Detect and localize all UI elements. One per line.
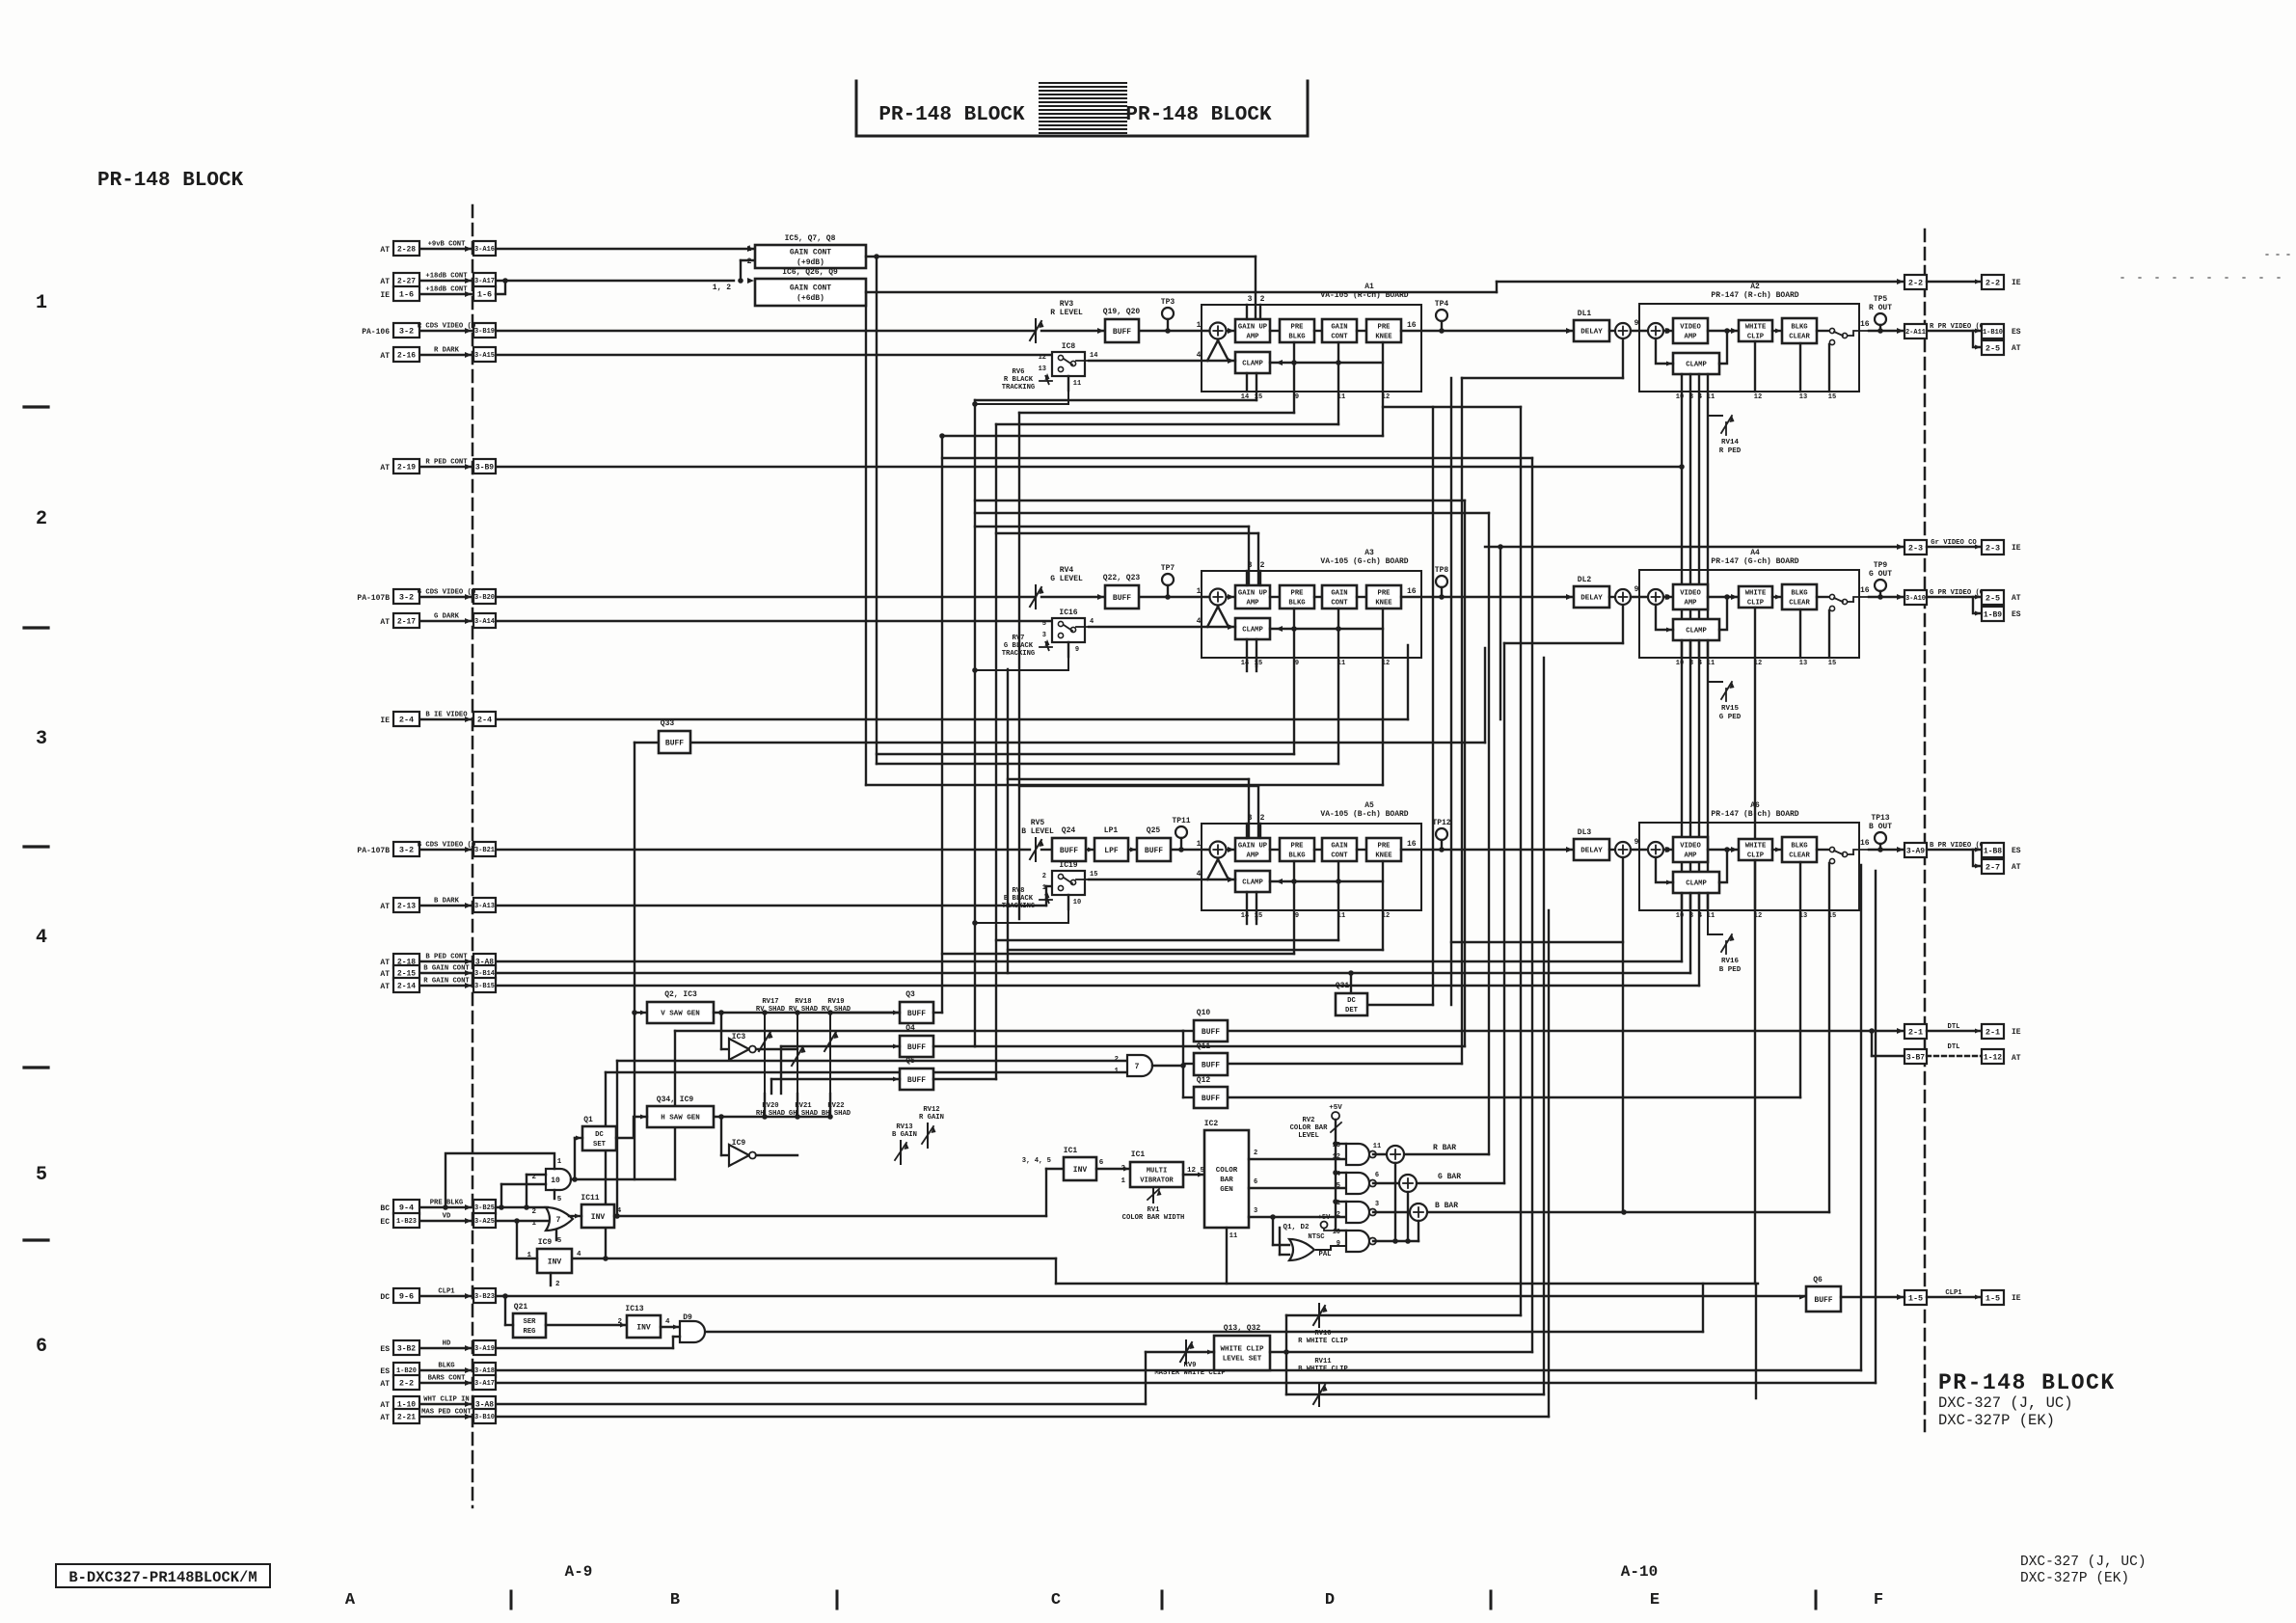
- svg-text:CLIP: CLIP: [1747, 599, 1765, 607]
- svg-text:LPF: LPF: [1104, 847, 1119, 855]
- svg-text:VIDEO: VIDEO: [1680, 590, 1701, 598]
- R-out summing node 1: [1615, 323, 1631, 338]
- svg-text:CLAMP: CLAMP: [1242, 627, 1263, 635]
- svg-text:R BLACK: R BLACK: [1004, 376, 1034, 384]
- B-strip pot RV8 black tracking: [1040, 899, 1052, 901]
- svg-text:BUFF: BUFF: [907, 1043, 926, 1052]
- R-strip block CLAMP: [1235, 352, 1270, 373]
- svg-text:DTL: DTL: [1948, 1043, 1960, 1051]
- svg-text:PA-107B: PA-107B: [357, 847, 390, 855]
- block Q10 BUFF: [1194, 1020, 1228, 1041]
- svg-text:ES: ES: [380, 1367, 390, 1376]
- svg-text:2-4: 2-4: [399, 716, 414, 725]
- svg-text:9: 9: [1634, 838, 1639, 847]
- R-out wire sum2 to clamp: [1656, 338, 1673, 364]
- block Q5 BUFF: [900, 1068, 933, 1090]
- block IC5 gain cont +9dB: [747, 246, 754, 252]
- R-strip wire amp-preblkg: [1270, 330, 1280, 332]
- svg-text:GAIN UP: GAIN UP: [1238, 590, 1268, 598]
- B-out wire blkg-switch: [1817, 849, 1828, 851]
- svg-text:2-19: 2-19: [397, 463, 416, 472]
- svg-text:CLIP: CLIP: [1747, 333, 1765, 340]
- svg-text:DELAY: DELAY: [1580, 848, 1603, 855]
- svg-text:COLOR: COLOR: [1216, 1167, 1238, 1175]
- svg-text:2: 2: [617, 1318, 622, 1326]
- B-strip wire strip out: [1401, 849, 1574, 851]
- svg-text:VIDEO: VIDEO: [1680, 843, 1701, 851]
- wire 1-6 hook: [496, 281, 505, 294]
- svg-text:KNEE: KNEE: [1375, 852, 1392, 859]
- G-strip block CLAMP: [1235, 618, 1270, 639]
- wire B gain-up feed 815: [1019, 785, 1258, 787]
- svg-text:GAIN: GAIN: [1331, 324, 1347, 332]
- svg-text:AMP: AMP: [1247, 599, 1260, 607]
- wire or7 out: [569, 1215, 581, 1217]
- svg-text:DXC-327P (EK): DXC-327P (EK): [1938, 1412, 2055, 1429]
- wire or in a: [1273, 1244, 1289, 1246]
- svg-text:14: 14: [1090, 352, 1097, 360]
- sum B bar: [1410, 1204, 1427, 1221]
- svg-text:14: 14: [1241, 912, 1249, 920]
- svg-text:AMP: AMP: [1685, 333, 1698, 340]
- G-out connector 1-B9: [1982, 607, 2004, 621]
- svg-text:BLKG: BLKG: [438, 1363, 454, 1370]
- svg-text:Q33: Q33: [661, 719, 675, 728]
- svg-text:IC2: IC2: [1204, 1120, 1219, 1128]
- gate10 in2: [501, 1183, 546, 1185]
- svg-text:13: 13: [1799, 660, 1807, 667]
- svg-text:R CDS VIDEO (Q: R CDS VIDEO (Q: [418, 323, 476, 331]
- pot RV1: [1152, 1187, 1154, 1203]
- svg-text:GAIN CONT: GAIN CONT: [790, 249, 831, 257]
- svg-text:SET: SET: [593, 1141, 607, 1149]
- connector EC 1-B23 VD 3-A25: [419, 1220, 473, 1222]
- block Q1 DC SET: [582, 1126, 616, 1150]
- wire wclip out: [1270, 1351, 1532, 1353]
- svg-text:GH SHAD: GH SHAD: [789, 1110, 819, 1118]
- svg-text:CLAMP: CLAMP: [1686, 628, 1707, 636]
- R-out wire clamp pins down: [1681, 374, 1683, 392]
- svg-text:3-B9: 3-B9: [475, 463, 494, 472]
- svg-text:A5: A5: [1364, 801, 1374, 810]
- svg-text:3: 3: [1689, 393, 1693, 401]
- svg-text:BC: BC: [380, 1204, 390, 1213]
- svg-text:GAIN UP: GAIN UP: [1238, 843, 1268, 851]
- svg-text:9: 9: [1634, 319, 1639, 328]
- G-strip wire preblkg-gaincont: [1314, 596, 1322, 598]
- wire IC13 out: [661, 1326, 680, 1328]
- svg-text:DC: DC: [595, 1131, 604, 1139]
- G-out block VIDEO AMP: [1673, 584, 1708, 609]
- svg-text:BLKG: BLKG: [1288, 333, 1305, 340]
- G-out wire amp-wclip: [1708, 596, 1739, 598]
- B-strip wire gaincont-preknee: [1357, 849, 1366, 851]
- svg-text:Q11: Q11: [1197, 1042, 1211, 1051]
- svg-text:BLKG: BLKG: [1791, 843, 1807, 851]
- svg-text:Q34, IC9: Q34, IC9: [657, 1096, 694, 1104]
- wire G board link 792: [877, 763, 1338, 765]
- svg-text:10: 10: [1676, 393, 1684, 401]
- svg-text:RV1: RV1: [1148, 1206, 1161, 1214]
- R-out pot RV14 ped: [1708, 392, 1722, 416]
- svg-text:BLKG: BLKG: [1791, 590, 1807, 598]
- B-strip wire clamp sum diagonals: [1207, 859, 1218, 879]
- pot RV19: [829, 1014, 831, 1094]
- G-out wire clamp to amp out: [1719, 597, 1727, 630]
- svg-text:AT: AT: [2012, 344, 2021, 353]
- wire wclip out route: [1531, 458, 1533, 1352]
- connector 2-1 DTL: [1897, 1028, 1904, 1034]
- svg-text:G LEVEL: G LEVEL: [1050, 575, 1083, 583]
- svg-text:CLEAR: CLEAR: [1789, 333, 1810, 340]
- R-out wire sum2-amp: [1663, 330, 1673, 332]
- svg-text:BH SHAD: BH SHAD: [822, 1110, 851, 1118]
- wire B board link 985: [1008, 949, 1383, 951]
- svg-text:H SAW GEN: H SAW GEN: [661, 1115, 700, 1123]
- svg-text:R OUT: R OUT: [1869, 304, 1892, 312]
- svg-text:INV: INV: [548, 1258, 562, 1266]
- R-strip wire switch drop: [975, 391, 1068, 404]
- wire R sum1 feedback: [1462, 377, 1623, 379]
- svg-text:IC1: IC1: [1131, 1150, 1146, 1159]
- svg-text:+9vB CONT: +9vB CONT: [428, 241, 467, 249]
- wire pin2 bracket IC5: [740, 260, 742, 281]
- svg-text:R LEVEL: R LEVEL: [1050, 309, 1083, 317]
- connector 3-B7 DTL: [1904, 1049, 1927, 1064]
- svg-text:TP11: TP11: [1172, 817, 1190, 825]
- svg-text:DXC-327 (J, UC): DXC-327 (J, UC): [1938, 1394, 2073, 1412]
- svg-text:G BAR: G BAR: [1438, 1173, 1461, 1181]
- wire R board link 452: [942, 435, 1383, 437]
- svg-text:RV8: RV8: [1013, 887, 1025, 895]
- svg-text:Q3: Q3: [905, 990, 915, 999]
- B-strip wire clamp input: [1089, 879, 1235, 880]
- svg-text:RV4: RV4: [1060, 566, 1074, 575]
- svg-text:B GAIN CONT: B GAIN CONT: [423, 965, 470, 973]
- svg-text:RV7: RV7: [1013, 635, 1025, 642]
- svg-text:PRE: PRE: [1378, 324, 1391, 332]
- R-strip pot RV3: [1035, 319, 1037, 342]
- svg-text:2: 2: [36, 508, 47, 530]
- inverter IC9: [729, 1145, 749, 1166]
- svg-text:16: 16: [1407, 321, 1417, 330]
- svg-text:MASTER WHITE CLIP: MASTER WHITE CLIP: [1154, 1369, 1226, 1377]
- svg-text:VIDEO: VIDEO: [1680, 324, 1701, 332]
- wire IC6 out: [866, 291, 1497, 293]
- svg-text:Q25: Q25: [1147, 826, 1161, 835]
- G-strip wire switch drop: [975, 657, 1068, 670]
- svg-text:IC1: IC1: [1064, 1147, 1078, 1155]
- svg-text:GAIN: GAIN: [1331, 590, 1347, 598]
- svg-text:3-A25: 3-A25: [474, 1218, 495, 1226]
- G-strip wire amp-preblkg: [1270, 596, 1280, 598]
- wire nand3 out: [1373, 1211, 1410, 1213]
- svg-text:(+6dB): (+6dB): [797, 294, 824, 303]
- svg-text:AT: AT: [380, 903, 390, 911]
- svg-text:1: 1: [747, 245, 752, 254]
- svg-text:IC9: IC9: [732, 1139, 746, 1148]
- svg-text:Q24: Q24: [1062, 826, 1076, 835]
- wire Q33 out: [690, 742, 1485, 744]
- R-out wire blkg-switch: [1817, 330, 1828, 332]
- wire RV10 row: [1286, 1314, 1521, 1316]
- wire nand4 out: [1373, 1240, 1418, 1242]
- block Q6 BUFF: [1806, 1286, 1841, 1312]
- svg-text:3-B19: 3-B19: [474, 328, 495, 336]
- connector AT 2-14 R GAIN CONT 3-B15: [419, 985, 473, 987]
- B-strip block GAIN UP AMP: [1235, 838, 1270, 861]
- wire wclip vert 1820 G-B: [1754, 658, 1756, 1284]
- connector 2-2 R video: [1897, 279, 1904, 284]
- row tick: [24, 626, 48, 629]
- wire vert 1011: [974, 400, 976, 1046]
- svg-text:1-6: 1-6: [477, 290, 492, 300]
- svg-text:4: 4: [1197, 617, 1202, 626]
- svg-text:5: 5: [557, 1196, 562, 1204]
- G-out wire wclip-blkg: [1772, 596, 1782, 598]
- svg-text:IE: IE: [2012, 279, 2021, 287]
- svg-text:GAIN: GAIN: [1331, 843, 1347, 851]
- svg-text:TP4: TP4: [1435, 300, 1449, 309]
- wire +5V stubs: [1336, 1143, 1346, 1145]
- svg-text:TP9: TP9: [1874, 561, 1888, 570]
- right bus dashed line: [1924, 230, 1927, 1431]
- G-out block WHITE CLIP: [1739, 586, 1772, 608]
- svg-text:10: 10: [551, 1177, 560, 1185]
- svg-text:12: 12: [1039, 354, 1046, 362]
- svg-text:12: 12: [1382, 912, 1390, 920]
- wire IC2 sig b: [1249, 1187, 1346, 1189]
- svg-text:6: 6: [1254, 1178, 1257, 1186]
- wire vsaw in: [635, 1012, 647, 1014]
- svg-text:2: 2: [1260, 561, 1265, 570]
- svg-text:15: 15: [1828, 912, 1836, 920]
- svg-text:CONT: CONT: [1331, 852, 1348, 859]
- B-out summing node 1: [1615, 842, 1631, 857]
- svg-text:4: 4: [1337, 1171, 1340, 1178]
- G-out wire blkg pin13 down: [1799, 609, 1801, 658]
- svg-text:RV14: RV14: [1721, 439, 1740, 446]
- svg-text:3-B25: 3-B25: [474, 1204, 495, 1212]
- svg-text:9: 9: [1295, 393, 1299, 401]
- svg-text:12: 12: [1754, 912, 1762, 920]
- B-out wire sums: [1631, 849, 1648, 851]
- R-out wire wclip pin12 down: [1754, 341, 1756, 392]
- svg-text:B IE VIDEO: B IE VIDEO: [425, 712, 468, 719]
- svg-text:13: 13: [1333, 1142, 1340, 1150]
- wire Q12 out: [1228, 1096, 1800, 1098]
- R-out connector 2-5: [1982, 340, 2004, 355]
- wire hsaw tap: [720, 1117, 722, 1155]
- B-out wire amp-wclip: [1708, 849, 1739, 851]
- svg-text:13: 13: [1039, 365, 1046, 373]
- R-strip wire strip out: [1401, 330, 1574, 332]
- svg-text:RV10: RV10: [1314, 1330, 1331, 1338]
- svg-text:2-17: 2-17: [397, 617, 416, 626]
- svg-text:3-A14: 3-A14: [474, 618, 495, 626]
- R-strip switch IC8 box: [1052, 352, 1085, 376]
- svg-text:3-A13: 3-A13: [474, 903, 495, 910]
- svg-text:AT: AT: [380, 959, 390, 967]
- G-out pot RV15 ped: [1708, 658, 1722, 682]
- svg-text:BUFF: BUFF: [1060, 847, 1078, 855]
- svg-text:A3: A3: [1364, 549, 1374, 557]
- svg-text:PRE: PRE: [1378, 843, 1391, 851]
- wire G video co: [1485, 546, 1904, 548]
- block Q11 BUFF: [1194, 1053, 1228, 1075]
- B-out wire to out boxes: [1927, 849, 1982, 851]
- R-out block BLKG CLEAR: [1782, 318, 1817, 343]
- svg-text:MAS PED CONT: MAS PED CONT: [421, 1409, 472, 1417]
- svg-text:Q6: Q6: [1813, 1276, 1823, 1285]
- svg-text:2: 2: [1260, 295, 1265, 304]
- svg-text:15: 15: [1255, 912, 1262, 920]
- wire pots bottom ties: [764, 1094, 766, 1117]
- G-out wire sum2-amp: [1663, 596, 1673, 598]
- R-out wire delay out: [1609, 330, 1615, 332]
- svg-text:1-5: 1-5: [1985, 1294, 2000, 1304]
- svg-text:14: 14: [1241, 393, 1249, 401]
- svg-text:3: 3: [1689, 660, 1693, 667]
- B-strip wire clamp out: [1270, 880, 1383, 882]
- svg-text:4: 4: [1197, 351, 1202, 360]
- svg-text:COLOR BAR WIDTH: COLOR BAR WIDTH: [1122, 1214, 1185, 1222]
- svg-text:IC8: IC8: [1062, 342, 1076, 351]
- svg-text:RV20: RV20: [762, 1102, 778, 1110]
- svg-text:AT: AT: [380, 352, 390, 361]
- B-strip wire B lpf chain: [1041, 849, 1052, 851]
- wire or in b: [1280, 1254, 1289, 1256]
- svg-text:1-12: 1-12: [1984, 1053, 2002, 1062]
- svg-text:DELAY: DELAY: [1580, 329, 1603, 337]
- svg-text:G CDS VIDEO (Q: G CDS VIDEO (Q: [418, 589, 476, 597]
- svg-text:IC3: IC3: [732, 1033, 746, 1041]
- wire dc det in: [1350, 973, 1352, 993]
- svg-text:IC13: IC13: [625, 1305, 643, 1313]
- svg-text:4: 4: [1698, 660, 1702, 667]
- svg-text:A4: A4: [1750, 549, 1760, 557]
- wire right clamp vert 1744: [1681, 392, 1683, 961]
- svg-text:TP3: TP3: [1161, 298, 1175, 307]
- svg-text:12: 12: [1382, 393, 1390, 401]
- svg-text:IE: IE: [380, 291, 390, 300]
- svg-text:DC: DC: [1347, 997, 1356, 1005]
- svg-text:DET: DET: [1345, 1007, 1359, 1014]
- svg-text:BARS CONT: BARS CONT: [428, 1375, 467, 1383]
- svg-text:1-B23: 1-B23: [396, 1218, 417, 1226]
- R-out wire amp-wclip: [1708, 330, 1739, 332]
- svg-text:R PED: R PED: [1719, 447, 1742, 455]
- connector PA-107B 3-2 G CDS VIDEO (Q 3-B20: [419, 596, 473, 598]
- wire vsaw tap: [720, 1013, 722, 1049]
- wire R board link 415: [975, 399, 1256, 401]
- svg-text:LEVEL: LEVEL: [1298, 1132, 1319, 1140]
- G-strip wire clamp input: [1089, 626, 1235, 628]
- connector AT 2-21 MAS PED CONT 3-B10: [419, 1416, 473, 1418]
- svg-text:DELAY: DELAY: [1580, 595, 1603, 603]
- svg-text:RV22: RV22: [827, 1102, 844, 1110]
- G-strip summing node: [1210, 589, 1227, 606]
- svg-text:4: 4: [1698, 912, 1702, 920]
- svg-text:SER: SER: [524, 1318, 537, 1326]
- R-strip pot RV6 black tracking: [1040, 380, 1052, 382]
- B-strip board outline VA-105: [1202, 824, 1421, 910]
- svg-text:5: 5: [36, 1164, 47, 1186]
- svg-text:11: 11: [1073, 380, 1081, 388]
- svg-text:KNEE: KNEE: [1375, 599, 1392, 607]
- svg-text:6: 6: [1099, 1159, 1104, 1167]
- svg-text:11: 11: [1337, 912, 1345, 920]
- svg-text:CLAMP: CLAMP: [1242, 879, 1263, 887]
- R-strip block BUFF Q19, Q20: [1105, 319, 1139, 342]
- R-strip wire clamp pins 14 15 down: [1246, 373, 1248, 392]
- R-strip wire preblkg pin9 down: [1293, 342, 1295, 392]
- svg-text:AT: AT: [380, 970, 390, 979]
- B-out wire sum2-amp: [1663, 849, 1673, 851]
- block Q13 Q32 WHITE CLIP LEVEL SET: [1214, 1336, 1270, 1370]
- svg-text:CONT: CONT: [1331, 333, 1348, 340]
- wire DTL out: [1228, 1030, 1904, 1032]
- svg-text:9: 9: [1634, 585, 1639, 594]
- svg-text:2-21: 2-21: [397, 1413, 416, 1421]
- svg-text:PRE: PRE: [1291, 324, 1305, 332]
- svg-text:Q1: Q1: [583, 1116, 593, 1124]
- block IC9 INV: [537, 1249, 572, 1273]
- svg-text:A-10: A-10: [1621, 1563, 1658, 1581]
- wire B gain-up feed 808: [1008, 778, 1249, 780]
- svg-text:BUFF: BUFF: [1113, 594, 1131, 603]
- svg-text:10: 10: [1676, 912, 1684, 920]
- svg-text:PR-148 BLOCK: PR-148 BLOCK: [1125, 104, 1272, 126]
- wire B board link 975: [996, 939, 1338, 941]
- svg-text:10: 10: [1676, 660, 1684, 667]
- svg-text:IC6, Q26, Q9: IC6, Q26, Q9: [782, 268, 838, 277]
- B-strip block PRE BLKG: [1280, 838, 1314, 861]
- svg-text:DXC-327P (EK): DXC-327P (EK): [2020, 1571, 2129, 1586]
- wire switch vert 1897 B: [1828, 910, 1830, 1212]
- svg-text:15: 15: [1255, 660, 1262, 667]
- svg-text:RV3: RV3: [1060, 300, 1074, 309]
- wire Q5 out: [933, 1078, 996, 1080]
- B-strip wire preblkg pin9 down: [1293, 861, 1295, 910]
- svg-text:RH SHAD: RH SHAD: [756, 1110, 786, 1118]
- connector AT 2-2 BARS CONT 3-A17: [419, 1382, 473, 1384]
- B-strip block LPF LP1: [1094, 838, 1128, 861]
- block IC1 MULTI VIBRATOR: [1130, 1162, 1183, 1187]
- wire bars riser 1945: [1875, 871, 1877, 1383]
- svg-text:15: 15: [1828, 393, 1836, 401]
- R-out wire switch pin15 down: [1828, 344, 1830, 392]
- wire IC11 out: [614, 1215, 1046, 1217]
- wire D9 out: [705, 1331, 1703, 1333]
- svg-text:4: 4: [1090, 618, 1094, 626]
- wire G gain-up feed 546: [975, 526, 1249, 527]
- B-strip block GAIN CONT: [1322, 838, 1357, 861]
- connector AT 1-10 WHT CLIP IN 3-A8: [419, 1403, 473, 1405]
- wire R bar route: [1405, 1153, 1489, 1155]
- block IC13 INV: [627, 1315, 661, 1338]
- svg-text:TP13: TP13: [1871, 814, 1889, 823]
- svg-text:15: 15: [1828, 660, 1836, 667]
- G-strip pot RV4: [1035, 585, 1037, 609]
- B-out connector 2-7: [1982, 859, 2004, 874]
- svg-text:AMP: AMP: [1247, 333, 1260, 340]
- svg-text:13: 13: [1799, 393, 1807, 401]
- block IC1 INV: [1064, 1157, 1096, 1180]
- svg-text:16: 16: [1860, 839, 1870, 848]
- block Q34 IC9 H SAW GEN: [647, 1106, 714, 1127]
- svg-text:RV2: RV2: [1303, 1117, 1315, 1124]
